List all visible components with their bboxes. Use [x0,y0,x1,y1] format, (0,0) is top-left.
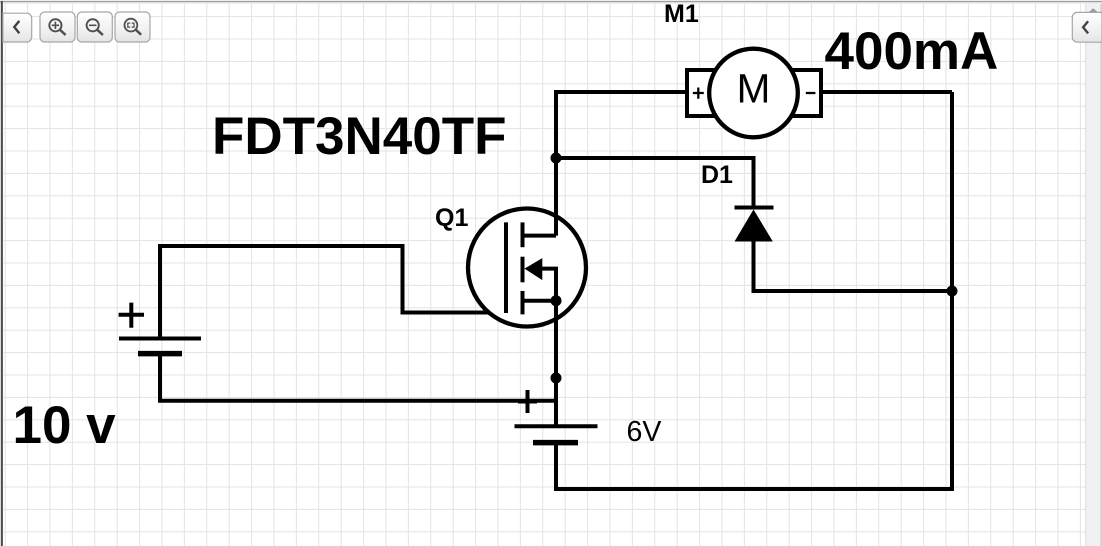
wire: motor to right rail [821,90,952,94]
wire: drain up to motor node [556,92,687,236]
battery V1 10v long plate [119,337,201,341]
svg-text:FDT3N40TF: FDT3N40TF [212,107,506,166]
motor M1 body rect [687,70,821,116]
label Q1 [435,204,468,232]
mosfet Q1 gate bar [504,222,508,313]
mosfet Q1 source bar [523,299,557,303]
label 6V [627,416,662,448]
battery V2 6V long plate [515,424,598,428]
wire: V2 negative to bottom rail [556,443,952,489]
mosfet Q1 body arrow line [540,269,556,301]
toolbar zoom-out button [77,12,112,42]
mosfet Q1 body circle [468,209,586,327]
toolbar back button [3,13,32,42]
toolbar zoom-in button [40,12,75,42]
svg-text:400mA: 400mA [825,22,999,81]
wire: right rail up to motor [950,92,954,491]
panel collapse button top right [1072,12,1102,42]
label 10 v [13,396,117,455]
svg-text:D1: D1 [701,161,733,189]
svg-text:Q1: Q1 [435,204,468,232]
top chrome strip [0,0,1102,4]
battery V2 6V short plate [533,440,578,446]
scrollbar up arrow [1089,8,1098,12]
svg-text:6V: 6V [627,416,662,448]
wire: diode anode to right rail [754,242,953,292]
label D1 [701,161,733,189]
node: battery V2 positive junction [551,373,562,384]
scrollbar track right [1085,4,1102,546]
label FDT3N40TF [212,107,506,166]
label 400mA [825,22,999,81]
svg-text:10 v: 10 v [13,396,117,455]
diode D1 cathode bar [735,206,774,210]
toolbar zoom-fit button [115,12,150,42]
mosfet Q1 channel dash middle [521,257,525,283]
battery V2 plus sign [518,390,537,413]
motor M1 letter M [737,66,771,112]
wire: V1 negative to 6V battery node [160,354,556,401]
node: diode/right rail junction [947,286,958,297]
wire: step down segment to gate [403,244,507,313]
left dark edge bar [1,1,3,546]
diode D1 triangle [735,210,773,242]
wire: source down to battery V2 [554,301,558,426]
wire: 10v battery positive top run to corner [160,246,403,339]
mosfet Q1 channel dash bottom [521,291,525,314]
battery V1 10v short plate [138,351,182,357]
node: drain/diode junction [551,153,562,164]
motor M1 minus terminal mark [806,92,816,94]
mosfet Q1 drain bar [523,234,557,238]
mosfet Q1 channel dash top [521,222,525,247]
motor M1 plus terminal mark [693,88,704,99]
label M1 [664,0,699,28]
node: mosfet source junction [551,295,562,306]
svg-text:M: M [737,66,771,112]
motor M1 circle [709,49,798,138]
svg-text:M1: M1 [664,0,699,28]
wire: branch to diode D1 [556,158,754,208]
battery V1 plus sign [119,303,144,328]
mosfet Q1 body arrow head [525,258,543,280]
